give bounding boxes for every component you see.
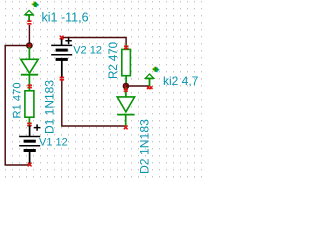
battery V2 bbox=[51, 38, 72, 79]
label V2 plus sign bbox=[65, 38, 71, 44]
svg-text:D1 1N183: D1 1N183 bbox=[43, 80, 57, 134]
diode D1 bbox=[21, 47, 38, 91]
wire bbox=[5, 46, 30, 166]
wire bbox=[28, 25, 30, 44]
pin connection mark bbox=[147, 86, 150, 89]
current probe ki2 bbox=[145, 74, 153, 86]
svg-text:R2 470: R2 470 bbox=[108, 42, 120, 79]
node junction A bbox=[26, 42, 33, 49]
pin connection mark bbox=[27, 84, 32, 88]
svg-text:V1 12: V1 12 bbox=[39, 136, 68, 148]
svg-text:D2 1N183: D2 1N183 bbox=[138, 119, 152, 174]
pin connection mark bbox=[60, 77, 65, 81]
pin connection mark bbox=[27, 123, 32, 127]
wire bbox=[126, 85, 149, 87]
svg-text:ki2 4,7: ki2 4,7 bbox=[163, 74, 199, 88]
node junction B bbox=[123, 83, 130, 90]
pin connection mark bbox=[150, 86, 153, 89]
pin connection mark bbox=[124, 88, 128, 92]
label ki2 plus marker bbox=[152, 67, 159, 73]
label ki1 plus marker bbox=[32, 2, 39, 8]
label V1 plus sign bbox=[34, 124, 40, 130]
battery V1 bbox=[19, 126, 40, 166]
pin connection mark bbox=[124, 45, 129, 49]
resistor R2 bbox=[122, 45, 131, 85]
pin connection mark bbox=[60, 36, 64, 40]
svg-text:V2 12: V2 12 bbox=[73, 44, 102, 56]
current probe ki1 bbox=[25, 10, 33, 24]
wire bbox=[62, 38, 127, 45]
pin connection mark bbox=[124, 126, 128, 130]
svg-text:R1 470: R1 470 bbox=[11, 82, 23, 118]
diode D2 bbox=[117, 88, 134, 127]
svg-text:ki1 -11,6: ki1 -11,6 bbox=[42, 10, 89, 24]
resistor R1 bbox=[25, 91, 34, 125]
pin connection mark bbox=[28, 163, 32, 167]
wire bbox=[62, 80, 126, 127]
